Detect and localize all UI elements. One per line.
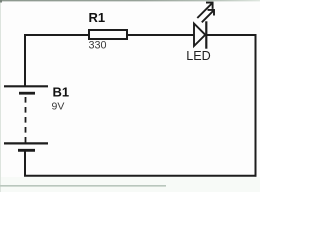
- svg-text:R1: R1: [89, 10, 106, 25]
- svg-text:330: 330: [89, 40, 107, 52]
- svg-text:9V: 9V: [52, 101, 65, 113]
- svg-text:LED: LED: [186, 49, 211, 63]
- svg-text:B1: B1: [53, 84, 70, 99]
